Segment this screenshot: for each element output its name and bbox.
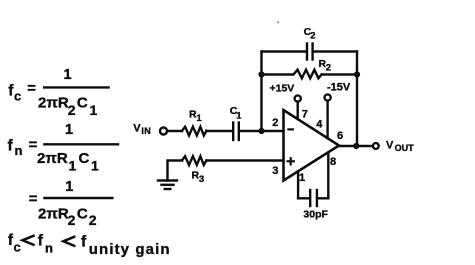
junction node R2 right [354,71,360,77]
wire pin8 [327,153,329,199]
svg-text:V: V [386,139,394,151]
label R3 [192,169,205,184]
svg-text:+15V: +15V [270,83,295,95]
resistor R2 [294,70,322,79]
svg-text:1: 1 [196,113,202,124]
speck [277,21,279,23]
svg-text:c: c [14,89,21,104]
+15V terminal circle [295,95,301,101]
input terminal circle [160,128,167,135]
svg-text:2: 2 [68,102,76,118]
wire right feedback vertical [356,52,358,147]
junction node at pin2 [258,128,264,134]
svg-text:IN: IN [141,126,151,136]
svg-text:2πR: 2πR [38,95,69,112]
svg-text:1: 1 [91,158,99,174]
svg-text:1: 1 [64,67,72,83]
svg-text:7: 7 [302,109,308,121]
svg-text:1: 1 [69,158,77,174]
output terminal circle [373,143,379,149]
wire top C2 branch right [314,50,357,52]
svg-text:30pF: 30pF [303,209,328,221]
less-than sign 1 [23,236,34,245]
wire C1 to pin2 [240,130,284,132]
label -15V [327,82,351,94]
fraction bar 1 [44,86,108,88]
op-amp U1 [284,110,340,181]
svg-text:1: 1 [236,110,242,121]
minus input marker [288,128,292,130]
ground [158,181,177,190]
pin label 8 [330,156,336,168]
wire pin4 [326,101,328,138]
formula fc < fn < f unity gain [8,232,171,258]
wire pin7 [297,102,299,119]
node VIN label [133,123,151,136]
resistor R1 [182,127,206,136]
svg-text:=: = [27,80,36,97]
label C2 [304,26,316,41]
svg-text:3: 3 [199,174,204,185]
resistor R3 [182,156,206,165]
wire R1 to C1 [206,130,231,132]
svg-text:2: 2 [310,31,315,42]
svg-text:1: 1 [299,172,305,184]
svg-text:n: n [45,241,53,256]
wire 30pF to pin8 [318,197,328,199]
svg-text:unity gain: unity gain [89,241,171,258]
label C1 [230,105,243,121]
pin label 7 [302,109,308,121]
svg-text:4: 4 [316,119,323,131]
pin label 6 [337,130,343,142]
wire pin1 to 30pF [298,197,309,199]
svg-text:n: n [15,143,23,158]
svg-text:2: 2 [68,212,76,228]
svg-text:C: C [79,150,90,167]
svg-text:2πR: 2πR [38,205,69,222]
svg-text:3: 3 [272,165,278,177]
wire R2 branch left [262,73,294,75]
label R2 [319,58,332,73]
formula fc = 1/(2piR2C1) [8,67,97,118]
svg-text:2: 2 [272,117,278,129]
pin label 1 [299,172,305,184]
svg-text:C: C [77,205,88,222]
wire R3 to pin3 [206,159,283,161]
wire output [339,145,372,147]
formula = 1/(2piR2C2) [29,179,97,228]
svg-text:1: 1 [65,179,73,195]
svg-text:2: 2 [326,62,331,73]
svg-text:C: C [77,95,88,112]
label +15V [270,83,295,95]
wire pin1 [297,171,299,198]
svg-text:f: f [81,234,87,251]
svg-text:=: = [29,190,38,207]
node VOUT label [386,139,414,153]
label R1 [189,108,202,123]
wire feedback left vertical [260,52,262,132]
svg-text:6: 6 [337,130,343,142]
wire R3 to ground corner [168,161,183,181]
label 30pF [303,209,328,221]
wire VIN to R1 [168,130,183,132]
fraction bar 3 [44,197,112,199]
svg-text:8: 8 [330,156,336,168]
less-than sign 2 [63,237,74,246]
junction node R2 left [258,71,264,77]
svg-text:c: c [14,240,21,255]
pin label 2 [272,117,278,129]
svg-text:2: 2 [89,212,97,228]
svg-text:1: 1 [90,102,98,118]
svg-text:f: f [8,138,14,155]
svg-text:OUT: OUT [395,143,415,153]
wire R2 branch right [322,73,357,75]
capacitor 30pF [310,190,317,206]
formula fn = 1/(2piR1C1) [8,122,100,174]
plus input marker [288,158,294,164]
pin label 3 [272,165,278,177]
svg-text:f: f [38,233,44,250]
svg-text:1: 1 [65,122,73,138]
junction node output [353,143,359,149]
fraction bar 2 [44,143,118,145]
svg-text:2πR: 2πR [37,150,68,167]
capacitor C1 [233,123,239,141]
svg-text:V: V [133,123,141,135]
capacitor C2 [307,44,313,60]
pin label 4 [316,119,323,131]
-15V terminal circle [325,94,331,100]
svg-text:-15V: -15V [327,82,351,94]
wire top C2 branch left [262,50,307,52]
